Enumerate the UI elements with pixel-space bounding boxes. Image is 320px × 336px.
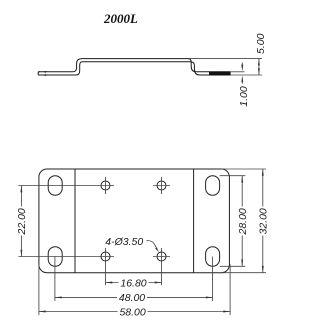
svg-text:28.00: 28.00 xyxy=(237,208,249,235)
svg-text:2000L: 2000L xyxy=(103,11,138,26)
svg-text:48.00: 48.00 xyxy=(119,292,145,304)
svg-text:32.00: 32.00 xyxy=(258,208,270,234)
svg-text:58.00: 58.00 xyxy=(119,306,145,318)
svg-text:22.00: 22.00 xyxy=(16,208,28,235)
svg-text:16.80: 16.80 xyxy=(120,277,146,289)
svg-text:4-Ø3.50: 4-Ø3.50 xyxy=(105,236,143,248)
svg-text:1.00: 1.00 xyxy=(238,86,250,107)
svg-text:5.00: 5.00 xyxy=(255,33,267,54)
